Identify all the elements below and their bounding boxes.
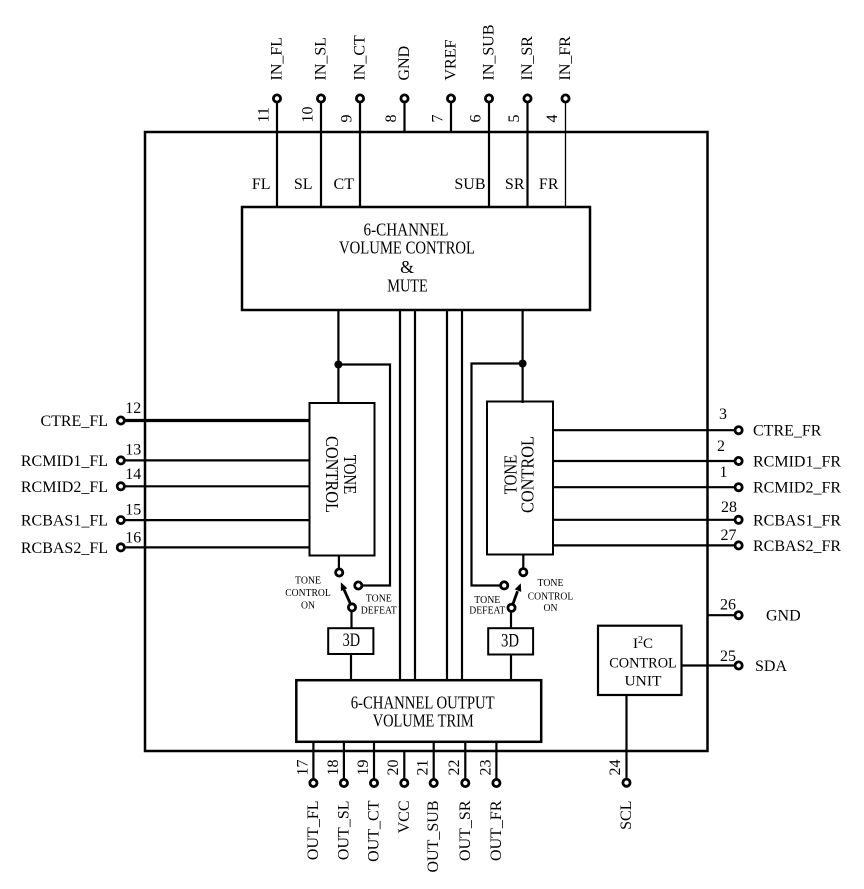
wire SL bus — [399, 310, 401, 680]
block U3 I2C control unit — [598, 626, 682, 695]
switch SW2 common pole — [508, 604, 515, 611]
wire tone control left output to switch — [338, 556, 340, 570]
svg-text:VREF: VREF — [443, 40, 460, 81]
svg-text:11: 11 — [256, 107, 273, 122]
switch SW1 throw tone defeat — [355, 582, 362, 589]
svg-text:21: 21 — [415, 760, 432, 776]
svg-text:OUT_FR: OUT_FR — [488, 800, 505, 861]
svg-text:9: 9 — [339, 115, 356, 123]
svg-text:23: 23 — [477, 760, 494, 776]
svg-text:7: 7 — [430, 115, 447, 123]
wire FL bypass branch to tone defeat switch — [338, 365, 390, 586]
svg-text:IN_CT: IN_CT — [352, 35, 369, 81]
pin 16 RCBAS2_FL — [21, 530, 310, 557]
wire FR from volume control to tone control — [521, 310, 523, 403]
switch SW2 arm with arrow — [513, 583, 521, 603]
label tone control on left — [285, 576, 331, 612]
svg-text:OUT_FL: OUT_FL — [305, 801, 322, 861]
block U1 6-channel volume control and mute — [242, 207, 590, 310]
pin 1 RCMID2_FR — [553, 464, 841, 497]
svg-text:17: 17 — [294, 760, 311, 776]
pin 10 IN_SL — [300, 37, 330, 208]
pin 25 SDA — [682, 648, 788, 675]
svg-text:RCMID1_FL: RCMID1_FL — [21, 453, 108, 470]
svg-text:14: 14 — [125, 466, 141, 483]
svg-text:27: 27 — [721, 527, 737, 544]
block tone control right — [487, 402, 553, 555]
block U2 6-channel output volume trim — [296, 680, 541, 742]
svg-text:SL: SL — [294, 176, 313, 193]
pin 6 IN_SUB — [468, 24, 498, 208]
svg-text:TONE: TONE — [366, 594, 392, 605]
pin 3 CTRE_FR — [553, 406, 822, 440]
svg-text:IN_SR: IN_SR — [519, 36, 536, 81]
switch SW1 throw tone control on — [336, 569, 343, 576]
svg-text:TONE: TONE — [340, 455, 360, 495]
svg-text:IN_SUB: IN_SUB — [481, 24, 498, 80]
wire SR bus — [461, 310, 463, 680]
switch SW1 common pole — [348, 604, 355, 611]
svg-text:GND: GND — [766, 608, 801, 625]
svg-text:24: 24 — [607, 760, 624, 776]
svg-text:22: 22 — [446, 760, 463, 776]
svg-text:VOLUME CONTROL: VOLUME CONTROL — [339, 238, 475, 258]
pin 20 VCC — [385, 751, 413, 833]
svg-text:8: 8 — [383, 115, 400, 123]
svg-text:&: & — [400, 257, 414, 277]
svg-text:ON: ON — [301, 601, 315, 612]
svg-text:OUT_SL: OUT_SL — [335, 801, 352, 861]
wire 3D right to output trim — [510, 655, 512, 681]
svg-text:SR: SR — [505, 176, 525, 193]
switch SW1 arm with arrow — [341, 582, 350, 603]
label tone defeat right — [469, 595, 506, 617]
pin 12 CTRE_FL — [40, 400, 309, 430]
pin 7 VREF — [430, 40, 460, 133]
svg-text:13: 13 — [125, 442, 141, 459]
svg-text:26: 26 — [720, 597, 736, 614]
wire switch SW1 to 3D left — [350, 611, 352, 629]
svg-text:2: 2 — [717, 438, 725, 455]
svg-text:3: 3 — [719, 406, 727, 423]
pin 24 SCL — [607, 695, 635, 830]
svg-text:FL: FL — [252, 176, 271, 193]
svg-text:OUT_SUB: OUT_SUB — [425, 801, 442, 873]
svg-text:RCBAS2_FL: RCBAS2_FL — [21, 540, 108, 557]
block tone control left — [310, 403, 375, 556]
block 3D effect right — [488, 628, 533, 654]
label tone control on right — [528, 578, 574, 614]
svg-text:VCC: VCC — [396, 801, 413, 834]
pin 27 RCBAS2_FR — [553, 527, 841, 555]
svg-text:FR: FR — [539, 176, 559, 193]
svg-text:15: 15 — [125, 502, 141, 519]
block 3D effect left — [328, 628, 373, 654]
svg-text:18: 18 — [325, 760, 342, 776]
svg-text:RCBAS1_FL: RCBAS1_FL — [21, 513, 108, 530]
wire CT bus — [414, 310, 416, 680]
svg-text:CTRE_FR: CTRE_FR — [753, 423, 822, 440]
svg-text:6: 6 — [468, 115, 485, 123]
svg-text:1: 1 — [720, 464, 728, 481]
svg-text:DEFEAT: DEFEAT — [469, 606, 506, 617]
svg-text:25: 25 — [720, 648, 736, 665]
wire switch SW2 to 3D right — [510, 611, 512, 629]
svg-text:4: 4 — [544, 115, 561, 123]
svg-text:SDA: SDA — [755, 658, 787, 675]
pin 22 OUT_SR — [446, 742, 474, 861]
wire SUB bus — [446, 310, 448, 680]
svg-text:CTRE_FL: CTRE_FL — [40, 413, 108, 430]
svg-text:TONE: TONE — [295, 576, 321, 587]
pin 28 RCBAS1_FR — [553, 499, 841, 529]
svg-text:OUT_SR: OUT_SR — [457, 800, 474, 861]
svg-text:DEFEAT: DEFEAT — [361, 606, 398, 617]
svg-text:3D: 3D — [343, 630, 361, 651]
pin 19 OUT_CT — [355, 742, 383, 862]
junction FR node — [519, 360, 527, 368]
svg-text:CONTROL: CONTROL — [517, 436, 537, 513]
svg-text:28: 28 — [721, 499, 737, 516]
svg-text:GND: GND — [396, 46, 413, 81]
pin 14 RCMID2_FL — [21, 466, 310, 496]
svg-text:TONE: TONE — [474, 595, 500, 606]
pin 9 IN_CT — [339, 35, 369, 208]
wire tone control right output to switch — [522, 555, 524, 569]
svg-text:CONTROL: CONTROL — [322, 436, 342, 513]
svg-text:16: 16 — [125, 530, 141, 547]
svg-text:TONE: TONE — [538, 578, 564, 589]
svg-text:5: 5 — [506, 115, 523, 123]
svg-text:RCBAS1_FR: RCBAS1_FR — [753, 512, 841, 529]
pin 18 OUT_SL — [325, 742, 353, 860]
pin 13 RCMID1_FL — [21, 442, 310, 470]
svg-text:CONTROL: CONTROL — [609, 656, 677, 672]
wire FL from volume control to tone control — [337, 310, 339, 404]
svg-text:ON: ON — [544, 603, 558, 614]
svg-text:OUT_CT: OUT_CT — [366, 800, 383, 862]
pin 23 OUT_FR — [477, 742, 505, 861]
pin 26 GND right — [707, 597, 801, 625]
wire FR bypass branch to tone defeat switch — [472, 364, 523, 586]
junction FL node — [334, 361, 342, 369]
svg-text:IN_FL: IN_FL — [269, 37, 286, 81]
pin 5 IN_SR — [506, 36, 536, 208]
svg-text:RCBAS2_FR: RCBAS2_FR — [753, 538, 841, 555]
pin 8 GND top — [383, 46, 413, 132]
svg-text:VOLUME TRIM: VOLUME TRIM — [373, 710, 474, 730]
pin 21 OUT_SUB — [415, 742, 443, 873]
svg-text:RCMID2_FR: RCMID2_FR — [753, 480, 841, 497]
svg-text:IN_FR: IN_FR — [557, 36, 574, 81]
svg-text:19: 19 — [355, 760, 372, 776]
svg-text:I2C: I2C — [633, 635, 653, 652]
wire 3D left to output trim — [350, 654, 352, 680]
svg-text:10: 10 — [300, 107, 317, 123]
svg-text:12: 12 — [125, 400, 141, 417]
svg-text:UNIT: UNIT — [625, 674, 662, 690]
svg-text:SCL: SCL — [618, 801, 635, 830]
svg-text:MUTE: MUTE — [387, 276, 428, 296]
svg-text:IN_SL: IN_SL — [313, 37, 330, 81]
svg-text:20: 20 — [385, 760, 402, 776]
svg-text:6-CHANNEL: 6-CHANNEL — [364, 220, 449, 240]
svg-text:CT: CT — [334, 176, 355, 193]
pin 15 RCBAS1_FL — [21, 502, 310, 530]
svg-text:RCMID1_FR: RCMID1_FR — [753, 454, 841, 471]
svg-text:SUB: SUB — [454, 176, 485, 193]
svg-text:RCMID2_FL: RCMID2_FL — [21, 479, 108, 496]
switch SW2 throw tone defeat — [501, 582, 508, 589]
svg-text:CONTROL: CONTROL — [285, 588, 331, 599]
svg-text:3D: 3D — [501, 630, 519, 651]
IC outline — [145, 132, 708, 751]
pin 17 OUT_FL — [294, 742, 322, 860]
svg-text:CONTROL: CONTROL — [528, 592, 574, 603]
pin 2 RCMID1_FR — [553, 438, 841, 471]
switch SW2 throw tone control on — [520, 569, 527, 576]
pin 11 IN_FL — [256, 37, 286, 208]
pin 4 IN_FR — [544, 36, 574, 208]
label tone defeat left — [361, 594, 398, 617]
